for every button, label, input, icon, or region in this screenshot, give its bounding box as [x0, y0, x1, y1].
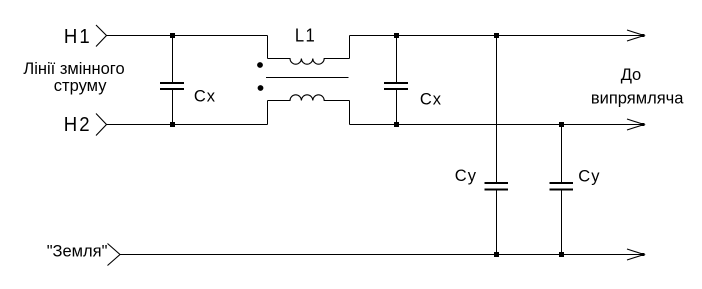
svg-text:Лінії змінного: Лінії змінного	[23, 60, 124, 78]
node: H1/Cy1 junction	[494, 33, 499, 38]
label: До випрямляча	[591, 66, 684, 107]
label Cx (right)	[420, 90, 442, 108]
inductor L1 phase dot top	[257, 62, 263, 68]
node: ground/Cy2 junction	[559, 252, 564, 257]
capacitor Cx2 lead bottom	[396, 90, 398, 125]
inductor L1 core	[266, 76, 348, 78]
svg-text:Cx: Cx	[194, 88, 216, 106]
capacitor Cx1 plates	[160, 83, 184, 89]
label: Лінії змінного струму	[23, 60, 124, 95]
inductor L1 bottom winding riser left	[267, 101, 269, 125]
inductor L1 top winding riser right	[349, 36, 351, 59]
svg-text:випрямляча: випрямляча	[591, 89, 684, 107]
wire H1 rail left	[107, 35, 268, 37]
svg-text:"Земля": "Земля"	[47, 242, 108, 260]
label Cx (left)	[194, 88, 216, 106]
inductor L1 top winding riser left	[267, 36, 269, 59]
capacitor Cx1 lead top	[172, 36, 174, 83]
capacitor Cx2 plates	[384, 83, 408, 89]
label Cy (left)	[455, 167, 477, 185]
inductor L1 top winding	[268, 59, 350, 65]
label L1	[295, 25, 316, 46]
label H1	[64, 27, 92, 49]
node: ground/Cy1 junction	[494, 252, 499, 257]
svg-text:Cy: Cy	[578, 168, 600, 186]
output arrow H1	[627, 30, 645, 41]
inductor L1 bottom winding riser right	[349, 101, 351, 125]
svg-text:L1: L1	[295, 25, 316, 46]
capacitor Cy2 lead top	[561, 125, 563, 183]
inductor L1 bottom winding	[268, 95, 350, 101]
node: H2/Cx1 junction	[170, 122, 175, 127]
capacitor Cx2 lead top	[396, 36, 398, 83]
capacitor Cy1 lead bottom	[496, 191, 498, 255]
svg-text:струму: струму	[54, 77, 107, 95]
wire H2 rail left	[107, 124, 268, 126]
label Cy (right)	[578, 168, 600, 186]
terminal H2	[96, 114, 107, 136]
svg-text:До: До	[621, 66, 642, 84]
output arrow ground	[627, 249, 645, 260]
node: H1/Cx2 junction	[394, 33, 399, 38]
capacitor Cx1 lead bottom	[172, 90, 174, 125]
node: H2/Cx2 junction	[394, 122, 399, 127]
svg-text:H1: H1	[64, 27, 92, 49]
wire H1 rail right	[350, 35, 644, 37]
node: H2/Cy2 junction	[559, 122, 564, 127]
svg-text:H2: H2	[64, 114, 92, 136]
capacitor Cy1 lead top	[496, 36, 498, 183]
capacitor Cy2 plates	[550, 183, 574, 190]
svg-text:Cy: Cy	[455, 167, 477, 185]
wire ground rail	[120, 254, 643, 256]
terminal H1	[96, 25, 107, 47]
label: "Земля"	[47, 242, 108, 260]
svg-text:Cx: Cx	[420, 90, 442, 108]
label H2	[64, 114, 92, 136]
capacitor Cy2 lead bottom	[561, 191, 563, 255]
wire H2 rail right	[350, 124, 644, 126]
output arrow H2	[627, 119, 645, 130]
node: H1/Cx1 junction	[170, 33, 175, 38]
ground terminal "Земля"	[108, 244, 121, 266]
inductor L1 phase dot bottom	[258, 85, 264, 91]
capacitor Cy1 plates	[485, 183, 509, 190]
